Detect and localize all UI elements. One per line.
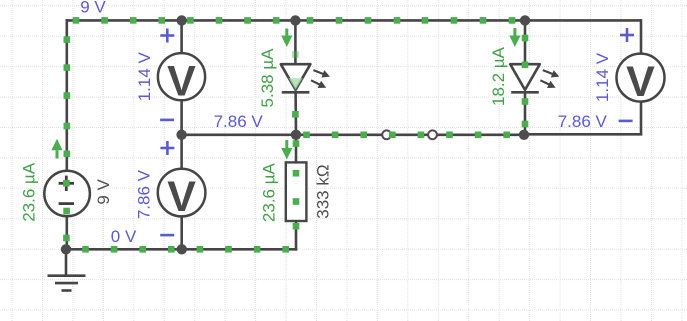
svg-text:23.6 µA: 23.6 µA <box>20 162 39 222</box>
svg-text:18.2 µA: 18.2 µA <box>489 46 508 106</box>
LED D1 <box>281 64 330 92</box>
svg-text:7.86 V: 7.86 V <box>135 169 154 219</box>
wire resistor R1 bottom stub <box>295 221 298 251</box>
svg-text:0 V: 0 V <box>111 227 137 246</box>
polarity + voltmeter M2 <box>160 141 174 155</box>
wire top rail segment B <box>182 19 296 22</box>
wire battery bottom lead <box>66 217 69 249</box>
LED D2 <box>510 64 559 92</box>
current dots: LED D2 branch <box>522 35 529 128</box>
wire middle rail left segment <box>182 134 296 137</box>
current arrow: resistor R1 current down <box>281 140 292 160</box>
wire bottom rail left segment <box>66 248 182 251</box>
current dots: LED D1 branch <box>292 111 299 118</box>
wire ground stub <box>65 249 68 274</box>
node junction ground <box>61 244 71 254</box>
wire top rail segment A <box>66 19 182 22</box>
resistor R1 (333 kΩ) <box>286 162 307 221</box>
wire voltmeter M2 bottom stub <box>180 216 183 249</box>
polarity + voltmeter M3 <box>620 28 634 42</box>
voltmeter M1 <box>158 53 205 105</box>
wire left vertical (battery top lead) <box>66 19 69 170</box>
current arrow: LED D1 current down <box>281 29 292 48</box>
current arrow: battery current up <box>51 139 62 159</box>
wire voltmeter M1 top stub <box>180 20 183 53</box>
wire bottom rail right segment <box>182 248 297 251</box>
polarity - voltmeter M2 <box>160 234 174 237</box>
node junction middle rail / D1-R1 <box>291 130 301 140</box>
wire post (open terminal) 1 <box>382 130 391 139</box>
current arrow: LED D2 current down <box>509 28 520 47</box>
svg-text:333 kΩ: 333 kΩ <box>314 164 333 218</box>
svg-text:7.86 V: 7.86 V <box>558 112 608 131</box>
wire middle rail right segment <box>525 133 642 136</box>
node junction top rail / M1 <box>177 15 187 25</box>
polarity - voltmeter M1 <box>160 119 174 122</box>
voltmeter M2 <box>158 169 206 221</box>
svg-text:5.38 µA: 5.38 µA <box>258 48 277 108</box>
wire post (open terminal) 2 <box>428 130 437 139</box>
node junction top rail / D2 <box>520 15 530 25</box>
node junction middle rail / M1-M2 <box>176 130 186 140</box>
current dots: bottom rail <box>82 246 289 253</box>
wire resistor R1 top stub <box>295 135 298 163</box>
wire voltmeter M2 top stub <box>180 135 183 169</box>
svg-text:23.6 µA: 23.6 µA <box>260 162 279 222</box>
svg-text:V: V <box>167 57 196 105</box>
wire top rail segment D <box>525 19 641 22</box>
polarity - voltmeter M3 <box>619 120 633 123</box>
wire LED D1 anode stub <box>294 20 297 64</box>
wire right vertical top (to voltmeter M3) <box>640 19 643 54</box>
wire right vertical bottom (from voltmeter M3) <box>640 101 643 134</box>
current dots: LED D1 branch faint <box>292 51 299 58</box>
current dots: middle rail <box>303 132 510 139</box>
node junction middle rail / D2 <box>519 130 529 140</box>
polarity + voltmeter M1 <box>160 29 174 43</box>
svg-text:1.14 V: 1.14 V <box>593 52 612 102</box>
ground <box>48 276 86 291</box>
svg-text:7.86 V: 7.86 V <box>214 112 264 131</box>
node junction top rail / D1 <box>290 15 300 25</box>
current dots: left wire <box>64 36 71 157</box>
wire LED D1 cathode stub <box>294 92 297 135</box>
wire LED D2 cathode stub <box>524 92 527 135</box>
node junction bottom rail / M2 <box>177 244 187 254</box>
svg-text:9 V: 9 V <box>94 178 113 204</box>
voltage source B1 (9 V battery) <box>44 171 90 217</box>
svg-text:1.14 V: 1.14 V <box>135 51 154 101</box>
svg-text:V: V <box>167 173 196 221</box>
svg-text:V: V <box>626 58 655 106</box>
current dots: resistor R1 branch <box>293 140 300 229</box>
current dots: top rail <box>73 17 516 24</box>
svg-text:9 V: 9 V <box>80 0 106 17</box>
wire middle rail center segment <box>296 134 525 137</box>
current dots: inside source <box>63 180 70 241</box>
voltmeter M3 <box>617 54 665 107</box>
wire voltmeter M1 bottom stub <box>180 100 183 135</box>
wire top rail segment C <box>295 19 525 22</box>
wire LED D2 anode stub <box>524 20 527 64</box>
